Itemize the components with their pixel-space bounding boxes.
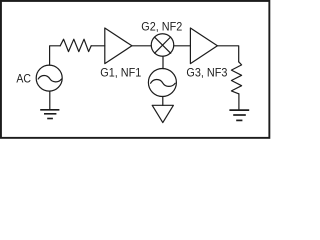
resistor R2 (231, 62, 241, 94)
source V1 (AC) (36, 65, 62, 91)
mixer G2 (151, 34, 174, 57)
wire G1 to mixer (132, 45, 151, 47)
op-amp G3 (190, 28, 217, 64)
wire R1 to G1 (91, 45, 105, 47)
source V2 (LO) (148, 69, 176, 97)
wire V1 to ground (49, 91, 51, 109)
wire mixer to G3 (174, 45, 191, 47)
resistor R1 (60, 39, 91, 51)
svg-text:G1, NF1: G1, NF1 (100, 67, 141, 79)
wire R2 to ground (238, 94, 240, 109)
svg-text:G2, NF2: G2, NF2 (141, 21, 182, 33)
op-amp G1 (105, 28, 132, 64)
wire mixer to LO (162, 56, 164, 68)
ground V1 (40, 110, 59, 119)
svg-text:G3, NF3: G3, NF3 (186, 68, 227, 80)
ground V2 (152, 105, 173, 122)
svg-text:AC: AC (16, 74, 31, 86)
ground R2 (229, 110, 249, 120)
wire V1 top to resistor (50, 46, 61, 65)
wire LO to ground (162, 97, 164, 106)
wire G3 to R2 (217, 46, 238, 62)
